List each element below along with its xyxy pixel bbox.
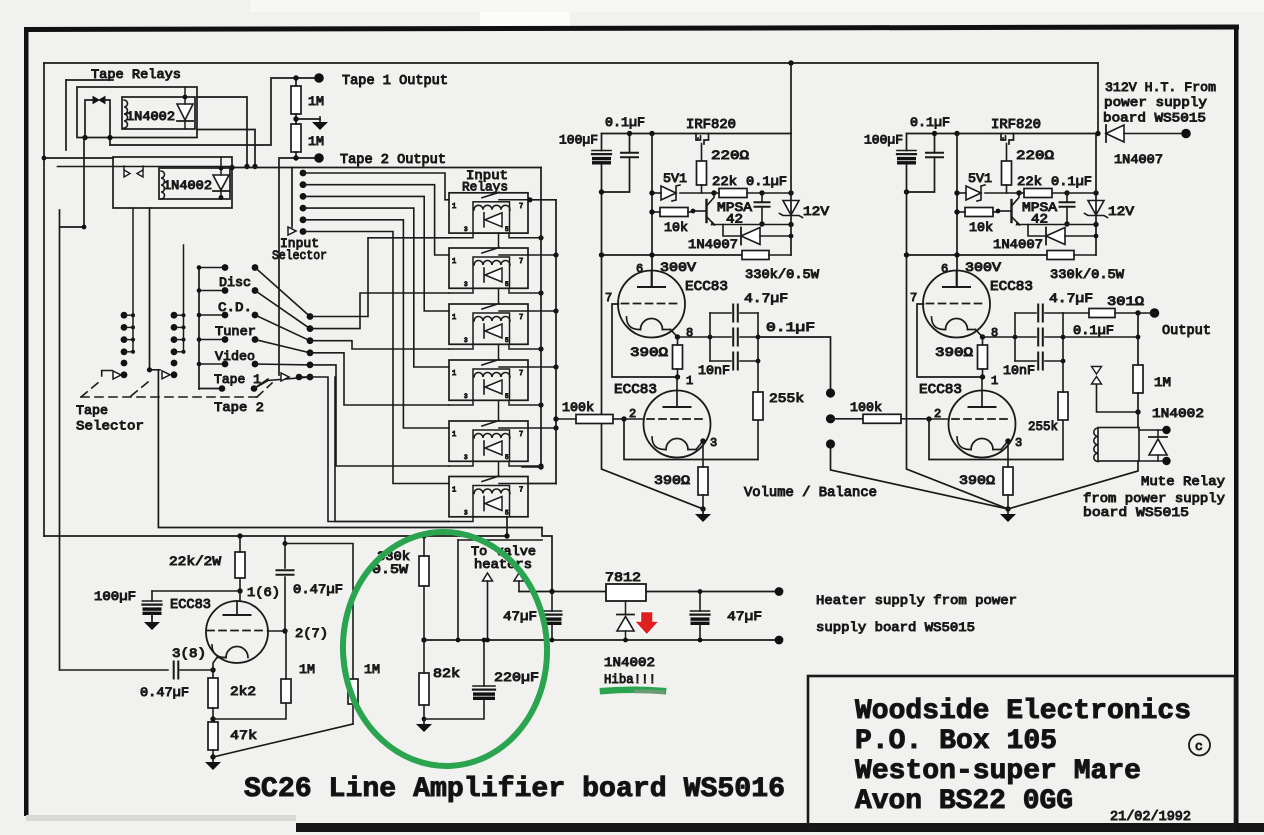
label IRF820: [991, 118, 1041, 133]
wire HT drop: [1097, 63, 1099, 134]
svg-text:12V: 12V: [1108, 204, 1134, 219]
wire pin2 wrap: [929, 419, 1063, 460]
resistor R 47k: [208, 722, 218, 750]
svg-text:3: 3: [710, 436, 717, 450]
wire RL4 bottom stubs: [449, 400, 544, 407]
node between 1M resistors: [293, 116, 298, 121]
svg-text:supply board WS5015: supply board WS5015: [816, 620, 975, 635]
diode D 1N4002 mute: [1149, 436, 1167, 438]
selector contact column: [171, 245, 186, 378]
svg-text:1N4002: 1N4002: [163, 179, 212, 193]
selector wiper arrow: [288, 227, 296, 235]
svg-text:0.1µF: 0.1µF: [1051, 174, 1092, 189]
input relay RL2: [449, 248, 528, 289]
wire pin2 wrap: [624, 419, 758, 460]
capacitor C 47uF b: [691, 610, 710, 612]
svg-text:4.7µF: 4.7µF: [744, 291, 788, 306]
svg-text:47µF: 47µF: [503, 609, 537, 624]
svg-text:3: 3: [464, 393, 468, 400]
svg-text:Output: Output: [1162, 324, 1211, 339]
label 5V1: [968, 171, 992, 186]
wire RL2 coil chain: [498, 288, 500, 304]
wire stage1 top rail: [602, 133, 792, 135]
svg-text:10k: 10k: [664, 220, 688, 235]
svg-text:0.1µF: 0.1µF: [766, 320, 815, 335]
wire RL4 pin7 to rail: [528, 364, 559, 369]
svg-text:7: 7: [519, 203, 523, 211]
svg-text:7: 7: [519, 431, 523, 439]
capacitor C 100uF lower: [143, 600, 162, 602]
label pin3: [710, 436, 717, 450]
svg-text:390Ω: 390Ω: [654, 473, 690, 488]
wire input feed 1: [303, 173, 449, 200]
wire cap left vertical: [1014, 313, 1016, 361]
resistor R2 1M: [291, 124, 301, 152]
capacitor C 0.47uF fb: [173, 662, 175, 679]
wire RL2 pin7 to rail: [528, 252, 559, 257]
regulator U 7812: [606, 584, 646, 601]
border frame top: [24, 24, 1239, 32]
svg-text:301Ω: 301Ω: [1107, 294, 1144, 309]
node 2(7): [282, 628, 287, 633]
svg-text:Tape 1: Tape 1: [214, 372, 261, 387]
wire feedback left vertical: [59, 210, 61, 670]
svg-text:5: 5: [505, 226, 509, 233]
label 390 top: [935, 345, 973, 360]
wire selector to relay 6: [310, 377, 449, 522]
wire cathode to node3: [1001, 441, 1008, 450]
resistor R 220: [1002, 161, 1012, 193]
svg-text:1: 1: [686, 374, 693, 388]
terminal Tape 2 Output: [314, 153, 324, 163]
node grid line left: [649, 131, 654, 136]
border frame right: [1234, 27, 1239, 828]
node heater rail left: [421, 637, 426, 642]
wire screen rail: [904, 252, 1047, 257]
label 300V: [965, 260, 1001, 275]
svg-text:1M: 1M: [308, 135, 324, 149]
input bus terminal 5: [300, 216, 307, 223]
label pin6: [941, 262, 948, 276]
contact K2 arrows: [124, 170, 130, 177]
label 22k: [712, 174, 737, 189]
svg-text:5V1: 5V1: [663, 171, 687, 186]
wire plate lead lower: [239, 591, 241, 601]
svg-text:390Ω: 390Ω: [630, 345, 668, 360]
label ECC83 bottom: [919, 383, 962, 398]
input relay RL6: [449, 476, 528, 517]
ground cathode: [1000, 509, 1016, 522]
resistor R 10k: [954, 208, 1000, 217]
resistor R 22k: [1019, 189, 1070, 198]
svg-text:ECC83: ECC83: [170, 598, 211, 613]
svg-text:390Ω: 390Ω: [959, 473, 995, 488]
wire rail B bottom bend: [530, 483, 556, 485]
label 1N4007 fb: [688, 237, 738, 252]
svg-text:Mute Relay: Mute Relay: [1141, 474, 1225, 489]
input bus terminal 3: [300, 193, 307, 200]
svg-text:Hiba!!!: Hiba!!!: [604, 672, 656, 687]
svg-text:7: 7: [519, 258, 523, 266]
node D2 top: [219, 166, 224, 171]
wire 7812 input: [519, 591, 606, 593]
wire mute to ground: [1008, 461, 1138, 509]
diode D2 in K2: [213, 175, 229, 190]
node D2 bottom: [219, 195, 224, 200]
second heater arrow: [514, 573, 524, 581]
terminal heater out-: [775, 636, 784, 645]
zener D 5V1: [649, 185, 716, 201]
selector output node 4: [307, 349, 314, 356]
svg-text:c: c: [1195, 739, 1203, 754]
node 47k bottom: [210, 754, 215, 759]
svg-text:1N4002: 1N4002: [126, 110, 175, 124]
wire RL1 pin7 to rail: [527, 197, 556, 202]
wire tape1 output run: [110, 78, 318, 145]
annotation red arrow: [634, 612, 660, 636]
heater output arrow: [483, 573, 493, 581]
wire relay6 stub: [335, 377, 449, 522]
wire K1 right to y166: [197, 97, 247, 167]
tape relay K1 box: [77, 87, 197, 138]
svg-text:Video: Video: [215, 349, 255, 364]
capacitor C 4.7uF a: [1015, 305, 1063, 322]
resistor R 220: [697, 161, 707, 193]
svg-text:1: 1: [452, 487, 456, 495]
label 12V: [1108, 204, 1134, 219]
selector output node 1: [307, 313, 314, 320]
terminal volume wiper: [826, 414, 835, 423]
label 5V1: [663, 171, 687, 186]
wire selector to relay 5: [310, 365, 449, 466]
svg-text:1N4007: 1N4007: [1114, 152, 1163, 167]
svg-text:10nF: 10nF: [1003, 363, 1035, 378]
svg-text:7: 7: [605, 291, 612, 305]
label MPSA42: [717, 200, 752, 227]
svg-text:2k2: 2k2: [230, 684, 256, 699]
svg-text:330k/0.5W: 330k/0.5W: [745, 267, 819, 282]
resistor R 1M gridleak: [281, 679, 291, 703]
svg-text:100k: 100k: [850, 400, 882, 415]
mosfet Q IRF820: [696, 134, 709, 162]
svg-text:82k: 82k: [433, 666, 460, 681]
wire pin7 wrap: [612, 304, 678, 377]
node cathode ground: [1005, 506, 1010, 511]
triode V3 lower: [206, 601, 268, 663]
capacitor C 47uF a: [543, 610, 562, 612]
wire 22k node to rail: [762, 190, 794, 195]
node D1 top: [183, 95, 188, 100]
wire RL5 pin7 to rail: [528, 425, 559, 430]
svg-text:Tuner: Tuner: [215, 324, 256, 339]
wire 1M to relay: [1137, 393, 1139, 428]
svg-text:220Ω: 220Ω: [711, 148, 749, 163]
wire emitter row: [1019, 222, 1099, 227]
wire cap right vertical: [756, 313, 761, 363]
wire top-left stub: [66, 79, 113, 81]
terminal heater out+: [775, 587, 784, 596]
wire RL1 bottom stubs: [449, 233, 544, 240]
resistor R1 1M: [291, 86, 301, 114]
scan bottom band: [296, 823, 1264, 832]
svg-text:board WS5015: board WS5015: [1083, 505, 1189, 520]
svg-text:100k: 100k: [562, 400, 594, 415]
wire zener rail: [790, 134, 792, 256]
node 2: [621, 416, 626, 421]
resistor R 330k 0.5W: [419, 556, 429, 586]
wire mute bottom: [1139, 460, 1166, 462]
label 390 bottom: [654, 473, 690, 488]
node at 255,166: [252, 164, 257, 169]
svg-text:1M: 1M: [364, 662, 380, 677]
wire selector wiper down: [158, 370, 542, 528]
selector output node 3: [307, 337, 314, 344]
capacitor C 10nF: [710, 353, 758, 370]
wire diagonal to 1M2: [213, 724, 353, 757]
wire y167 to relay rail A: [232, 167, 541, 169]
svg-text:3: 3: [464, 454, 468, 461]
svg-text:12V: 12V: [803, 204, 829, 219]
wire heater supply jog: [542, 528, 552, 592]
svg-text:5V1: 5V1: [968, 171, 992, 186]
svg-text:P.O. Box 105: P.O. Box 105: [855, 726, 1057, 757]
triode V top: [618, 271, 685, 338]
node 8: [980, 334, 985, 339]
selector blade tape1: [254, 377, 310, 389]
svg-text:3: 3: [464, 281, 468, 288]
label 10k: [664, 220, 688, 235]
wire input feed 6: [303, 232, 449, 484]
elevated ref arrows: [1092, 367, 1102, 375]
triode V bottom: [949, 391, 1016, 458]
svg-text:Avon BS22 0GG: Avon BS22 0GG: [855, 786, 1073, 817]
tape selector contact column: [121, 208, 135, 378]
wire input feed 3: [303, 196, 449, 311]
wire stage1 supply riser: [790, 63, 792, 134]
resistor R 255k: [1058, 361, 1068, 420]
node mid s2: [1136, 335, 1141, 340]
svg-text:5: 5: [505, 454, 509, 461]
label 22k: [1017, 174, 1042, 189]
svg-text:10nF: 10nF: [698, 363, 730, 378]
label 100uF: [559, 133, 598, 148]
wire tape2 output run: [279, 158, 318, 375]
wire RL3 bottom stubs: [449, 344, 544, 351]
label 0.1uF: [605, 115, 645, 130]
input relay RL4: [449, 360, 528, 401]
svg-text:ECC83: ECC83: [919, 383, 962, 398]
wire decoupling drop: [907, 255, 1009, 509]
wire cathode lower: [213, 656, 218, 678]
annotation green underline: [603, 690, 663, 691]
svg-text:4.7µF: 4.7µF: [1049, 291, 1093, 306]
coil K1: [124, 100, 128, 128]
wire RL3 pin7 to rail: [528, 308, 559, 313]
svg-text:Tape 2: Tape 2: [214, 400, 264, 415]
node K1 left leg: [82, 135, 87, 140]
resistor R 10k: [649, 208, 695, 217]
wire cathode to node3: [696, 441, 703, 450]
label pin3: [1015, 436, 1022, 450]
terminal 312V in: [1181, 129, 1191, 139]
label 10nF: [1003, 363, 1035, 378]
node grid line left: [954, 131, 959, 136]
resistor R 1M heater: [348, 679, 358, 704]
svg-text:312V H.T. From: 312V H.T. From: [1105, 80, 1216, 95]
label 12V: [803, 204, 829, 219]
node rail A bottom: [538, 464, 543, 469]
label 220: [1016, 148, 1054, 163]
resistor R 2k2: [208, 678, 218, 708]
svg-text:0.1µF: 0.1µF: [1073, 323, 1114, 338]
selector contact row 5: [197, 361, 310, 368]
wire selector to relay 3: [310, 341, 449, 349]
ground lower amp: [212, 757, 214, 763]
wire cap right vertical: [1061, 313, 1066, 363]
selector contact row 3: [197, 312, 310, 341]
node Tape2 1M bottom: [293, 155, 298, 160]
label pin8: [686, 326, 693, 340]
wire left HT bus vertical: [43, 63, 45, 536]
capacitor C 0.1uF mpsa: [755, 193, 770, 227]
node pin1: [675, 374, 680, 379]
label 10k: [969, 220, 993, 235]
resistor R 301: [1089, 309, 1115, 318]
wire 047 net: [284, 536, 286, 568]
tape relay K2 inner box: [159, 168, 230, 199]
capacitor C coupling mid: [710, 329, 758, 346]
label ECC83 top: [685, 280, 728, 295]
copyright symbol: [1189, 735, 1210, 756]
ground tape output divider: [319, 117, 321, 123]
label 0.1uF b: [746, 174, 787, 189]
wire 255k return: [757, 420, 759, 460]
node 1(6): [237, 588, 242, 593]
terminal volume bottom: [826, 439, 835, 448]
label 330k/0.5W: [745, 267, 819, 282]
svg-text:7: 7: [910, 291, 917, 305]
label pin1: [991, 374, 998, 388]
node HT bus tape2: [42, 156, 47, 161]
svg-text:10k: 10k: [969, 220, 993, 235]
svg-text:220Ω: 220Ω: [1016, 148, 1054, 163]
input relay RL5: [449, 421, 528, 462]
resistor R 22k: [714, 189, 765, 198]
svg-text:100µF: 100µF: [94, 589, 136, 604]
resistor R 330k/0.5W: [1047, 251, 1096, 260]
svg-text:1: 1: [452, 203, 456, 211]
wire selector to relay 4: [310, 353, 449, 405]
svg-text:5: 5: [505, 337, 509, 344]
svg-text:Selector: Selector: [76, 419, 144, 434]
wire selector to relay 2: [310, 293, 449, 329]
wire RL5 bottom stubs: [449, 461, 544, 468]
wire heater box: [458, 539, 542, 541]
wire K1 contact right leg: [105, 100, 110, 145]
wire 100uF to plate: [152, 590, 240, 592]
wire zener rail: [1095, 134, 1097, 256]
svg-text:2(7): 2(7): [295, 626, 328, 641]
capacitor C coupling mid: [1015, 329, 1063, 346]
svg-text:8: 8: [686, 326, 693, 340]
node 0.1uF to 100uF: [904, 131, 937, 195]
zener D 12V: [1085, 201, 1108, 218]
wire elevated ref: [1097, 384, 1139, 412]
svg-text:100µF: 100µF: [864, 133, 903, 148]
node at 247,166: [244, 164, 249, 169]
capacitor C 0.1uF bypass: [602, 134, 639, 193]
wire RL4 coil chain: [498, 400, 500, 421]
svg-text:Heater supply from power: Heater supply from power: [816, 593, 1017, 608]
svg-text:1M: 1M: [1154, 375, 1171, 390]
wire plate lead bottom: [981, 377, 983, 391]
input bus terminal 4: [300, 205, 307, 212]
wire pin7 wrap: [917, 304, 983, 377]
node 1M bottom: [1135, 409, 1140, 414]
input relay RL1: [449, 192, 528, 233]
svg-text:3(8): 3(8): [172, 646, 206, 661]
node 3: [1005, 438, 1010, 443]
tape selector wiper 1: [102, 371, 112, 377]
node B+ 22k: [237, 533, 242, 538]
wire heater rail: [424, 639, 779, 641]
node K2 right edge: [229, 165, 234, 170]
svg-text:Woodside Electronics: Woodside Electronics: [855, 696, 1191, 727]
selector contact row 2: [197, 287, 310, 329]
label MPSA42: [1022, 200, 1057, 227]
svg-text:power supply: power supply: [1104, 95, 1207, 110]
wire grid out lower: [268, 630, 286, 632]
capacitor C 10nF: [1015, 353, 1063, 370]
label pin2: [629, 407, 636, 421]
label 0.1uF: [910, 115, 950, 130]
resistor R 255k: [753, 361, 763, 420]
wire emitter row: [714, 222, 794, 227]
wire screen divider vertical: [956, 134, 958, 288]
label 0.1uF b: [1051, 174, 1092, 189]
resistor R 330k/0.5W: [742, 251, 791, 260]
label 4.7uF: [1049, 291, 1093, 306]
diode D1 in K1: [177, 104, 193, 120]
wire selector left vertical: [60, 138, 85, 227]
wire K1 right lower to y166: [197, 130, 255, 167]
label pin7: [605, 291, 612, 305]
svg-text:22k/2W: 22k/2W: [169, 554, 221, 569]
svg-text:1: 1: [452, 314, 456, 322]
terminal Output: [1150, 308, 1160, 318]
svg-text:IRF820: IRF820: [686, 118, 736, 133]
wire RL6 pin7 to rail: [528, 483, 556, 485]
selector output node 6: [307, 374, 314, 381]
label pin6: [636, 262, 643, 276]
label pin2: [934, 407, 941, 421]
wire stage1 grid from relays: [553, 416, 558, 421]
triode V bottom: [644, 391, 711, 458]
ground cathode: [695, 509, 711, 522]
svg-text:IRF820: IRF820: [991, 118, 1041, 133]
input bus terminal 1: [300, 170, 307, 177]
svg-text:5: 5: [505, 510, 509, 517]
wire 7812 output: [646, 591, 778, 593]
diode D 1N4007 HT: [1106, 125, 1124, 142]
wire plate lead bottom: [676, 377, 678, 391]
svg-text:ECC83: ECC83: [614, 383, 657, 398]
wire screen divider vertical: [651, 134, 653, 288]
node cathode lower: [210, 667, 215, 672]
wire 220uF return: [424, 700, 484, 719]
svg-text:1N4002: 1N4002: [1152, 406, 1204, 421]
label 1N4007 fb: [993, 237, 1043, 252]
